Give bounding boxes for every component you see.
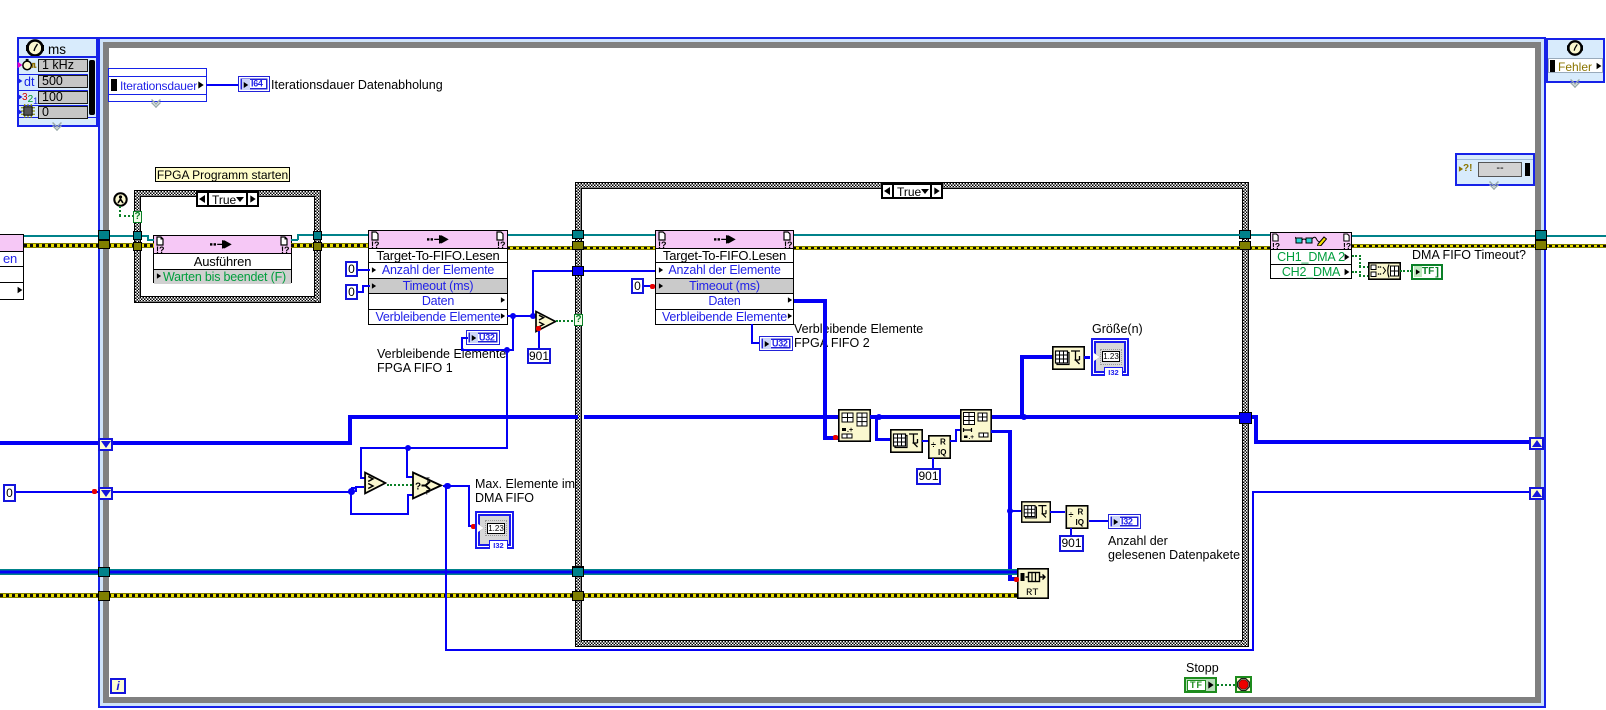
array size node 2 [1052,346,1085,370]
error wire lower [0,593,1017,598]
svg-text:T: T [426,478,430,484]
green dotted GE2 to select [387,484,412,486]
indicator Max Elemente I32 [475,511,514,549]
timed loop left data node Iterationsdauer [108,68,207,102]
select output wire [443,485,470,487]
build array (bool) node [1368,262,1401,280]
wire 0 to shift register [16,491,98,493]
timed loop timing config node [17,37,98,127]
coercion dot RT [1014,577,1019,582]
greater-or-equal node 2 [364,471,387,495]
constant 0 (Anzahl) [345,261,358,277]
iteration terminal i [110,678,126,694]
subset out wire [991,430,1010,433]
wire across to U32 jog [461,349,514,351]
up to array size 2 [1020,355,1024,415]
array size node 3 [1021,500,1051,524]
wire from SR lower right [113,491,353,493]
thick wire tunnel out step down to right SR [1252,415,1258,419]
black slider bar [89,60,95,115]
array subset node [960,409,992,442]
indicator Groesse(n) array I32 [1091,338,1129,376]
clock icon (timing source) [25,39,45,57]
case selector terminal ? [133,211,142,223]
constant 901 (2) [916,468,941,485]
wire QR2 to I32 [1089,520,1109,522]
Fehler row [1548,58,1603,73]
to Max indicator [468,485,470,527]
U32 indicator FPGA FIFO 2 [751,324,753,344]
svg-text:RT: RT [1026,587,1039,599]
wire down to lower junction [512,316,514,351]
error wire (olive dashed) segments [24,243,154,248]
tunnel blue out (array wire) [1239,412,1252,424]
jog into greater-equal 2 lower input [351,487,357,489]
thick array wire inside to corner [113,441,352,445]
case selector label True (inner) [881,183,943,199]
label DMA FIFO Timeout? [1412,248,1526,262]
drop to select top input [406,448,408,478]
property node DMA [1270,232,1352,279]
constant 901 [527,348,551,364]
I32 indicator Anzahl der gelesenen [1108,514,1141,529]
constant 0 (Timeout) [345,284,358,300]
svg-text:?: ? [415,482,421,493]
invoke node Target-To-FIFO.Lesen 2 [655,230,794,325]
select node [412,471,443,500]
paper/error icons on pink header [156,236,164,246]
tunnel error left border [98,240,110,250]
shift register right upper [1529,437,1544,450]
wire Verbleibende out [507,315,537,317]
teal+blue array wire to RT [0,569,1017,575]
U32 indicator FPGA FIFO 1 [466,330,500,345]
label Iterationsdauer Datenabholung [271,78,443,92]
wire to QR1 [922,440,929,442]
priority row [18,94,23,100]
junction dot [510,313,517,320]
wire long down [506,350,508,449]
loop-right tunnels [1535,230,1547,240]
down branch [350,492,352,514]
case structure FPGA Programm starten [134,190,321,303]
label Verbleibende Elemente FPGA FIFO 1 [377,347,506,375]
inner case right tunnels [1239,230,1251,240]
green dotted wires to build array bool [1352,255,1361,257]
svg-text:.+: .+ [969,434,975,441]
wire up-branch to case tunnel [530,313,537,320]
select down branch around inner case [445,485,447,651]
dt row [18,78,23,84]
I64 indicator [238,76,270,92]
thick array wire left (outside loop) [0,441,98,445]
invoke node Target-To-FIFO.Lesen 1 [368,230,508,325]
svg-text:÷: ÷ [1069,510,1074,520]
selector wire green dotted to inner case [556,320,576,322]
build array node [838,409,871,442]
case selector label True [196,191,259,207]
case structure inner [575,182,1249,647]
timed loop right data node [1455,153,1535,186]
clock icon small [1566,40,1584,56]
svg-text:IQ: IQ [1076,518,1084,527]
quotient-remainder node 1 [928,435,951,459]
chevron [52,118,64,125]
TF array indicator [1411,264,1443,280]
invoke node Ausfuehren [153,235,292,283]
case selector terminal ? inner [574,314,583,326]
coercion dot timeout2 [650,284,655,289]
tunnel teal left border [98,230,110,240]
green dotted out [1400,270,1412,272]
label Max Elemente im DMA FIFO [475,477,575,505]
RT FIFO write node [1017,568,1049,599]
constant 901 (3) [1059,535,1084,552]
processor row [18,109,23,115]
shift register left upper [98,438,113,451]
label Verbleibende Elemente FPGA FIFO 2 [794,322,923,350]
wire 0 to Timeout2 [644,285,655,287]
svg-text:÷: ÷ [931,440,936,450]
wire FPGA ref teal inside case [584,234,656,236]
wire 901 up [538,331,540,348]
array size node 1 [890,429,923,453]
row separator lines [18,56,97,58]
lower teal+error tunnels on inner case [572,566,584,576]
quotient-remainder node 2 [1065,505,1089,529]
tunnel blue (Anzahl wire) [572,266,584,276]
timed loop right error node [1546,38,1605,83]
build array out wire [870,415,1240,419]
glasses+pencil icon [1295,235,1327,246]
greater-or-equal node 1 [535,310,557,333]
stop button [1235,676,1252,693]
coercion dot build array [833,435,838,440]
wire QR1 down to 901 [932,458,934,468]
label Groesse(n) [1092,322,1143,336]
wire to QR2 [1050,511,1065,513]
svg-text:R: R [940,438,946,447]
First Call? function [113,192,128,207]
label Stopp [1186,661,1219,675]
wire tunnel to Anzahl input [584,270,655,272]
svg-text:IQ: IQ [938,448,946,457]
coercion dot [536,326,541,331]
label Anzahl der gelesenen Datenpakete [1108,534,1240,562]
FPGA reference wire (teal) segments [24,235,148,237]
drop to array size 1 [875,417,878,440]
inner case left tunnels [572,230,584,240]
junction dot lower [504,347,511,354]
green dotted to stop button [1217,684,1235,686]
TF control Stopp [1184,677,1217,693]
svg-text:R: R [1078,508,1084,517]
junction dot [876,414,883,421]
wire Iterationsdauer to I64 [206,84,239,86]
constant 0 init [3,484,16,502]
drop to GE2 top input [360,448,362,479]
source row: 1 kHz [18,62,23,68]
wire error inside case [584,246,656,251]
QR1 R out to subset [950,440,957,442]
chevron [1570,75,1582,82]
wire to Groesse indicator [1084,356,1090,359]
junction on main wire [1021,414,1028,421]
shift register left lower [98,487,113,500]
svg-text:.+: .+ [847,427,853,434]
junction dot [348,488,355,495]
invoke arrow glyph [210,239,234,249]
shift register array wire through case at y 417 [584,415,838,419]
re-draw lower tunnels above wires [98,567,110,577]
wire from vertical (x507) left at y448 [360,447,508,449]
constant 0 (Timeout 2) [631,278,644,294]
wire QR2 down to 901 [1070,528,1072,536]
shift register right lower [1529,487,1544,500]
wire first call to selector (green dotted) [119,206,121,216]
thick array wire from Daten down [794,299,827,303]
label FPGA Programm starten [155,167,290,183]
case FPGA tunnels [133,231,142,240]
wire 0 to Timeout [358,291,364,293]
wire junction to array size 3 [1012,510,1021,512]
invoke node left cut off [0,234,24,300]
svg-text:F: F [426,491,430,497]
wire 0 to Anzahl [358,269,370,271]
